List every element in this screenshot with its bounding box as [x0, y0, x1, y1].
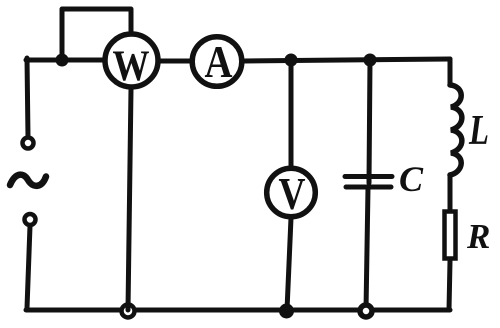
- svg-text:A: A: [205, 36, 233, 87]
- wire right vertical to inductor: [448, 59, 453, 85]
- node junction ring bottom of W branch: [122, 305, 135, 318]
- wire resistor to bottom: [449, 261, 450, 310]
- node junction ring bottom of C branch: [360, 305, 372, 317]
- AC source terminal (top): [23, 138, 34, 149]
- node junction dot left of W: [56, 54, 69, 67]
- wire voltmeter top: [289, 60, 294, 166]
- AC source terminal (bottom): [25, 214, 36, 225]
- node junction dot top of C branch: [364, 54, 377, 67]
- AC source tilde: [10, 175, 46, 186]
- wire left vertical lower: [27, 226, 30, 308]
- node junction dot top of V branch: [285, 54, 298, 67]
- inductor L coil: [450, 85, 462, 175]
- wire A to top-right corner: [244, 59, 450, 61]
- svg-text:V: V: [279, 168, 306, 219]
- wire W to A: [160, 59, 191, 64]
- wire left vertical upper: [27, 58, 28, 137]
- wire bottom horizontal: [26, 308, 450, 313]
- wire capacitor bottom: [366, 188, 368, 310]
- resistor R body: [445, 212, 456, 259]
- wattmeter W: [105, 34, 158, 90]
- inductor L value label: [468, 108, 489, 154]
- capacitor C plates: [345, 177, 392, 188]
- wire wattmeter bottom branch: [128, 89, 131, 310]
- ammeter A: [192, 36, 242, 87]
- node junction dot bottom of V branch: [279, 304, 294, 319]
- wire voltmeter bottom: [287, 218, 291, 310]
- resistor R value label: [466, 217, 490, 256]
- svg-text:R: R: [466, 217, 490, 256]
- wire inductor to resistor: [448, 175, 453, 211]
- voltmeter V: [267, 168, 316, 219]
- svg-text:C: C: [399, 159, 424, 199]
- wire capacitor top: [369, 60, 370, 183]
- capacitor C value label: [399, 159, 424, 199]
- svg-text:L: L: [468, 108, 489, 154]
- wire top-left horizontal: [26, 58, 103, 63]
- wire wattmeter voltage-coil loop: [62, 9, 131, 58]
- svg-text:W: W: [113, 43, 150, 90]
